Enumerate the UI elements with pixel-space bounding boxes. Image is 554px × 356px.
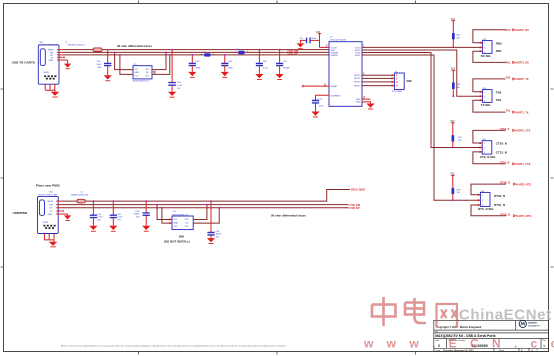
wire U7 GND pins to ground — [362, 96, 371, 103]
svg-text:CTS_N SEL: CTS_N SEL — [480, 155, 496, 159]
svg-text:RX SEL: RX SEL — [481, 54, 492, 58]
svg-text:RTS1_N: RTS1_N — [501, 213, 511, 216]
power flag 3V3 for R28 — [450, 174, 455, 188]
svg-text:CP2105-F01-GM: CP2105-F01-GM — [330, 40, 346, 42]
power flag 3V3 for R27 — [450, 121, 455, 135]
ground for C63 — [104, 75, 112, 81]
ground for C41 — [89, 226, 97, 232]
no-connect X on U3 NC pin — [153, 71, 155, 73]
svg-text:0.1uF: 0.1uF — [177, 85, 183, 87]
ground for C42 — [109, 226, 117, 232]
wire RXD1 down to RTS SEL — [362, 55, 480, 200]
svg-text:UART0_RTS: UART0_RTS — [516, 183, 531, 186]
wire U3 VCC up to DM — [152, 52, 167, 70]
svg-text:GPIO0: GPIO0 — [354, 75, 361, 77]
svg-text:RTS1_N: RTS1_N — [494, 203, 505, 207]
svg-text:25V: 25V — [216, 237, 220, 239]
ground for C40 — [142, 226, 150, 232]
capacitor C9 on SUSPEND — [312, 95, 329, 111]
wire TXD1 down to CTS SEL — [362, 53, 482, 148]
svg-text:100nF: 100nF — [311, 38, 318, 40]
svg-text:40pF: 40pF — [196, 68, 201, 70]
svg-text:GPIO3: GPIO3 — [354, 85, 361, 87]
svg-text:NC: NC — [146, 72, 150, 74]
net label RTS0_N UART0_RTS — [501, 182, 532, 187]
jumper JU5 RX SEL — [480, 39, 502, 58]
svg-text:GND: GND — [48, 214, 53, 216]
svg-text:HZ0805C201R-10: HZ0805C201R-10 — [68, 45, 86, 47]
svg-text:1000pF: 1000pF — [283, 68, 291, 70]
wire RTS SEL pin3 rail to UART1_RTS — [471, 205, 506, 216]
svg-text:VBUS_MOD: VBUS_MOD — [351, 189, 365, 192]
ground at CN1 GND pin — [64, 60, 71, 69]
svg-text:TX0: TX0 — [506, 76, 511, 79]
svg-text:Maxim cannot assume responsibi: Maxim cannot assume responsibility for u… — [61, 345, 287, 348]
net label TX0 UART0_TX — [506, 76, 529, 81]
svg-text:RX1: RX1 — [506, 62, 511, 65]
header J5 DNI — [392, 71, 412, 93]
svg-text:UART0_TX: UART0_TX — [516, 78, 529, 81]
wire USB DP bottom line — [62, 207, 349, 209]
wire U4 IO1 tap from DM — [156, 204, 172, 221]
svg-text:ChinaECNet: ChinaECNet — [459, 307, 552, 324]
svg-text:54321: 54321 — [44, 72, 51, 74]
svg-text:25V: 25V — [97, 220, 101, 222]
svg-text:100nF: 100nF — [134, 214, 141, 216]
title block size and docnum row — [436, 339, 547, 348]
svg-text:NC: NC — [186, 222, 190, 224]
svg-text:RXD1: RXD1 — [355, 55, 361, 57]
svg-text:10uF: 10uF — [97, 64, 102, 66]
ground at CN2 GND pin — [64, 214, 71, 221]
wire U7 GPIO2 to J5 — [362, 81, 394, 83]
net label RX1 UART1_RX — [506, 61, 530, 64]
svg-text:RTS0_N: RTS0_N — [494, 194, 505, 198]
capacitor C65 — [189, 54, 201, 72]
svg-text:Copyright © 2011 - Maxim Integ: Copyright © 2011 - Maxim Integrated — [436, 325, 481, 329]
capacitor C41 — [90, 200, 103, 225]
label Place near PMIC — [36, 183, 61, 187]
svg-text:CTS1_N: CTS1_N — [500, 161, 510, 164]
jumper JU8 RTS SEL — [478, 191, 505, 211]
svg-text:TB0: TB0 — [496, 90, 502, 94]
capacitor C8 bypass — [300, 38, 320, 44]
IC U7 CP2105 — [326, 36, 365, 106]
jumper JU7 CTS SEL — [480, 139, 507, 159]
svg-text:40pF: 40pF — [228, 68, 233, 70]
capacitor C66 — [221, 54, 233, 72]
svg-text:GND: GND — [134, 72, 139, 74]
net label USB_DM USB_DP on lines — [288, 50, 299, 56]
ground for C8 — [297, 43, 305, 49]
svg-text:25V: 25V — [177, 88, 181, 90]
net label RTS1_N UART1_RTS — [501, 213, 532, 218]
resistor R27 — [452, 135, 463, 148]
wire TXD0 to RX SEL — [362, 46, 482, 48]
svg-text:54321: 54321 — [43, 222, 50, 224]
wire CTS SEL pin1 rail to UART0_CTS — [473, 130, 506, 143]
ferrite bead L4 — [71, 192, 89, 203]
title block title row — [435, 334, 495, 338]
svg-text:RB0: RB0 — [496, 41, 502, 45]
net label USB_DP bottom — [349, 207, 359, 210]
resistor R26 — [452, 83, 461, 98]
svg-text:4.7uF: 4.7uF — [97, 217, 103, 219]
svg-text:RTS_N SEL: RTS_N SEL — [478, 207, 494, 211]
ground for C69 — [255, 74, 263, 80]
label 90 ohm differential traces (bottom) — [271, 214, 306, 218]
svg-text:RB1: RB1 — [496, 49, 502, 53]
svg-text:CTS0_N: CTS0_N — [500, 128, 510, 131]
wire USB DM bottom line — [62, 204, 349, 206]
wire U3 IO3 up to DP — [152, 54, 171, 74]
svg-text:VBUS: VBUS — [48, 50, 54, 52]
wire VBUS line — [63, 49, 329, 51]
CN1 pin stubs — [57, 50, 68, 60]
ground for C9 — [311, 112, 319, 118]
wire USBDM line — [63, 51, 329, 53]
svg-text:GPIO2: GPIO2 — [354, 82, 361, 84]
svg-text:VCC: VCC — [185, 219, 190, 221]
net label CTS1_N UART1_CTS — [500, 161, 531, 166]
wire U3 IO2 tap from DP — [119, 54, 133, 74]
svg-text:SUSPEND: SUSPEND — [331, 95, 342, 97]
wire U4 IO3 up to DP — [193, 207, 220, 223]
ground for C64 — [168, 92, 176, 98]
connector CN1 micro USB — [38, 42, 59, 84]
wire U3 IO1 tap from DM — [114, 52, 133, 70]
label 90 ohm differential traces (top) — [117, 44, 152, 48]
wire U4 VCC up to DM — [193, 204, 208, 220]
svg-text:integrated™: integrated™ — [528, 325, 541, 328]
resistor R25 — [452, 33, 461, 48]
net label RX0 UART0_RX — [506, 29, 530, 32]
label USB TO UARTS — [12, 60, 35, 64]
svg-text:16V: 16V — [117, 220, 121, 222]
wire RXD0 down to TX SEL — [362, 50, 482, 96]
capacitor C69 — [256, 49, 269, 74]
capacitor C42 — [110, 200, 123, 225]
power flag 3V3 for R25 — [451, 19, 456, 33]
svg-text:100nF: 100nF — [216, 234, 223, 236]
ground for C66 — [221, 72, 229, 78]
svg-text:GPIO1: GPIO1 — [354, 78, 361, 80]
label DNI do not install — [164, 235, 190, 244]
wire 3V3 to U7 VCCIO — [320, 47, 330, 49]
wire USBDP line — [63, 54, 329, 56]
svg-text:DM: DM — [49, 205, 53, 207]
svg-text:UART0_CTS: UART0_CTS — [516, 130, 531, 133]
svg-text:USB TO UARTS: USB TO UARTS — [12, 60, 35, 64]
svg-text:TX1: TX1 — [506, 110, 511, 113]
svg-text:CTS1_N: CTS1_N — [496, 151, 507, 155]
ESD diode array U3 — [133, 64, 152, 82]
svg-text:(DO NOT INSTALL): (DO NOT INSTALL) — [164, 240, 190, 244]
watermark chinese character zhong — [372, 297, 396, 326]
power flag 3V3 for R26 — [451, 69, 456, 83]
svg-text:DNI: DNI — [407, 79, 412, 83]
title block frame — [434, 320, 549, 351]
wire VBUS bottom line — [62, 190, 350, 202]
svg-text:25V: 25V — [136, 217, 140, 219]
svg-text:DNI: DNI — [179, 235, 184, 239]
power flag 3V3 near U7 — [316, 32, 321, 48]
ferrite bead L2 on DP — [202, 52, 214, 57]
wire RX SEL pin3 rail to UART1_RX — [473, 51, 506, 62]
title block copyright row — [436, 325, 481, 329]
svg-text:UART1_RTS: UART1_RTS — [516, 215, 531, 218]
svg-text:VBUS: VBUS — [47, 201, 53, 203]
svg-text:FTDI DB09: FTDI DB09 — [392, 91, 403, 93]
svg-text:GND: GND — [173, 222, 178, 224]
ferrite bead L3 on DM — [236, 49, 247, 54]
svg-text:USB_DP: USB_DP — [288, 53, 298, 56]
svg-text:RTS0_N: RTS0_N — [501, 182, 511, 185]
ground at U7 — [366, 104, 374, 110]
wire RTS SEL pin1 rail to UART0_RTS — [471, 184, 506, 195]
svg-text:UART1_CTS: UART1_CTS — [516, 163, 531, 166]
svg-text:USBDP: USBDP — [331, 55, 339, 57]
CN2 shield pins to ground — [44, 234, 57, 248]
capacitor C40 — [134, 200, 150, 225]
svg-text:RESET: RESET — [331, 86, 339, 88]
svg-text:GND: GND — [49, 60, 54, 62]
title block PB row — [435, 331, 438, 333]
svg-text:CTS0_N: CTS0_N — [496, 141, 507, 145]
svg-text:RX0: RX0 — [506, 29, 511, 32]
CN2 pin stubs — [56, 201, 67, 214]
svg-text:90 ohm differential traces: 90 ohm differential traces — [271, 214, 306, 218]
watermark ChinaECNet — [459, 307, 552, 324]
label USB/PWR — [13, 211, 28, 215]
ground for C65 — [188, 72, 196, 78]
svg-text:16V: 16V — [98, 67, 102, 69]
svg-text:USB/PWR: USB/PWR — [13, 211, 28, 215]
jumper JU6 TX SEL — [480, 88, 502, 107]
svg-text:0.1uF: 0.1uF — [263, 68, 269, 70]
wire TX SEL pin3 rail to UART1_TX — [473, 100, 506, 112]
net label USB_DM bottom — [349, 204, 360, 207]
wire TX SEL pin1 rail to UART0_TX — [473, 79, 506, 92]
ferrite bead L1 — [65, 42, 102, 52]
no-connect X on U7 RESET — [302, 83, 329, 87]
svg-text:UART1_RX: UART1_RX — [516, 62, 530, 65]
watermark chinese character wang — [436, 304, 459, 327]
wire U7 GPIO0 to J5 — [362, 74, 394, 76]
svg-text:UART1_TX: UART1_TX — [516, 111, 529, 114]
svg-text:GND: GND — [356, 99, 361, 101]
ESD diode array U4 — [172, 211, 193, 230]
watermark www ecn com — [363, 337, 554, 351]
net label VBUS_MOD — [351, 189, 365, 192]
ground for C70 — [276, 74, 284, 80]
svg-text:10nF: 10nF — [319, 105, 324, 107]
wire RX SEL pin1 rail to UART0_RX — [473, 30, 506, 43]
disclaimer text — [61, 345, 287, 348]
wire CTS SEL pin3 rail to UART1_CTS — [473, 152, 506, 164]
connector CN2 micro USB — [38, 192, 59, 234]
svg-text:USB_DP: USB_DP — [349, 207, 359, 210]
watermark chinese character dian — [405, 298, 426, 323]
svg-text:NUP4202W1T2-7: NUP4202W1T2-7 — [133, 81, 150, 83]
wire U7 GPIO3 to J5 — [362, 84, 394, 86]
title block date row — [436, 349, 539, 352]
svg-text:UART0_RX: UART0_RX — [516, 29, 530, 32]
Maxim Integrated logo — [519, 320, 541, 327]
svg-text:90 ohm differential traces: 90 ohm differential traces — [117, 44, 152, 48]
svg-text:TX SEL: TX SEL — [481, 103, 491, 107]
capacitor C44 — [207, 200, 222, 238]
resistor R28 — [452, 188, 462, 201]
svg-text:TB1: TB1 — [496, 98, 502, 102]
svg-text:VCC: VCC — [145, 69, 150, 71]
CN1 shield pins to ground — [45, 84, 59, 97]
svg-text:w w w . E C N . c o m: w w w . E C N . c o m — [363, 337, 554, 351]
svg-text:GND: GND — [356, 102, 361, 104]
wire U7 GPIO1 to J5 — [362, 77, 394, 79]
ground for C44 — [207, 238, 215, 244]
capacitor C64 — [168, 49, 183, 92]
svg-text:Place near PMIC: Place near PMIC — [36, 183, 61, 187]
capacitor C70 — [276, 49, 291, 74]
wire U4 IO2 tap from DP — [161, 207, 172, 224]
net label CTS0_N UART0_CTS — [500, 128, 531, 133]
svg-text:HZ0805C201R-10: HZ0805C201R-10 — [71, 195, 89, 197]
svg-text:0.1uF: 0.1uF — [117, 217, 123, 219]
net label TX1 UART1_TX — [506, 110, 529, 115]
capacitor C63 — [97, 50, 112, 76]
